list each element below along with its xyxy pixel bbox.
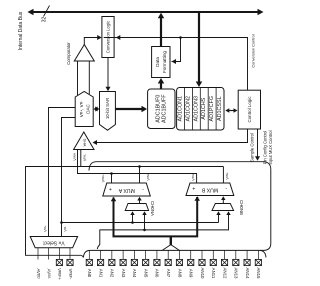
svg-text:VINH: VINH bbox=[101, 175, 106, 183]
svg-text:32: 32 bbox=[41, 17, 47, 23]
block: Conversion Logic bbox=[102, 17, 114, 58]
svg-text:10-bit SAR: 10-bit SAR bbox=[105, 98, 110, 119]
svg-text:AN12: AN12 bbox=[222, 268, 227, 280]
wire: CH0NA output to MUX A bbox=[137, 197, 141, 204]
svg-text:Control Logic: Control Logic bbox=[247, 96, 252, 123]
pin AN8 bbox=[176, 250, 182, 277]
wire/net: Conversion Control bbox=[104, 34, 256, 90]
wire: comparator output to conversion logic bbox=[84, 35, 101, 45]
svg-text:Input MUX Control: Input MUX Control bbox=[268, 130, 273, 164]
pin VREF- bbox=[67, 248, 73, 280]
svg-text:ADC1BUFF: ADC1BUFF bbox=[161, 94, 167, 123]
svg-text:-: - bbox=[142, 187, 144, 193]
svg-text:Data: Data bbox=[155, 57, 160, 67]
mux CH0NB bbox=[212, 200, 244, 215]
svg-text:SHA: SHA bbox=[83, 139, 88, 147]
svg-text:Comparator: Comparator bbox=[66, 42, 71, 65]
wire: DAC to SAR double arrow bbox=[94, 107, 100, 112]
wire/net: AN1 rail to CH0NA/CH0NB bbox=[97, 211, 230, 249]
power pin AVSS bbox=[46, 248, 51, 279]
pin AN0 bbox=[86, 250, 92, 277]
wire/net: VR- to DAC bbox=[62, 118, 76, 237]
pin AN5 bbox=[143, 250, 149, 277]
wire/net: VR- reference rail to CH0NA/CH0NB bbox=[60, 211, 221, 224]
svg-text:AD1CON2: AD1CON2 bbox=[185, 96, 191, 121]
pin AN3 bbox=[120, 250, 126, 277]
svg-text:CH0NB: CH0NB bbox=[239, 200, 244, 215]
wire: SAR result bus to ADC1BUF (thick arrow) bbox=[115, 106, 147, 113]
junction: MUX A - to VINL rail bbox=[138, 165, 150, 183]
svg-text:AD1PCFG: AD1PCFG bbox=[209, 96, 215, 121]
pin AN9 bbox=[188, 250, 194, 277]
svg-text:VREF+: VREF+ bbox=[57, 268, 62, 280]
wire/net: Pin Config Control / Input MUX Control bbox=[255, 129, 273, 165]
svg-text:VINL: VINL bbox=[82, 154, 87, 162]
pin AN6 bbox=[154, 250, 160, 277]
wire: analog input bus to MUX A / MUX B (thick) bbox=[111, 196, 200, 236]
wire: AN0-AN15 pin collector bus bbox=[83, 250, 266, 257]
svg-text:Formatting: Formatting bbox=[162, 51, 167, 73]
svg-text:AD1CON1: AD1CON1 bbox=[178, 96, 184, 121]
svg-text:AN13: AN13 bbox=[234, 268, 239, 280]
pin VREF+ bbox=[56, 248, 62, 281]
mux MUX A bbox=[103, 183, 151, 196]
pin AN7 bbox=[165, 250, 171, 277]
wire: ADC1BUF to Data Formatting (thick) bbox=[158, 78, 165, 89]
pin AN2 bbox=[109, 250, 115, 277]
register: 10-bit SAR bbox=[100, 92, 116, 131]
svg-text:AN2: AN2 bbox=[110, 269, 115, 278]
svg-text:VINH: VINH bbox=[72, 153, 77, 161]
svg-text:AN11: AN11 bbox=[211, 268, 216, 279]
svg-text:AD1CSSL: AD1CSSL bbox=[217, 96, 223, 121]
svg-text:VR+, VR-: VR+, VR- bbox=[79, 101, 84, 118]
svg-text:AN7: AN7 bbox=[166, 269, 171, 278]
mux CH0NA (negative input select A) bbox=[125, 201, 155, 216]
svg-text:VREF-: VREF- bbox=[68, 269, 73, 280]
wire/net: VINL rail (SHA - input) bbox=[26, 150, 224, 258]
svg-text:AN8: AN8 bbox=[177, 269, 182, 278]
svg-text:AN9: AN9 bbox=[189, 269, 194, 278]
mux: VR Select bbox=[30, 237, 77, 248]
wire: Internal Data Bus (32-bit) bbox=[28, 9, 264, 16]
wire/net: VINH rail (SHA + input) bbox=[72, 150, 196, 184]
wire: comparator input legs from DAC / SAR chain bbox=[78, 61, 90, 95]
svg-text:Conversion Logic: Conversion Logic bbox=[106, 21, 111, 53]
DAC (VR+, VR- reference DAC) bbox=[75, 92, 93, 127]
svg-text:+: + bbox=[192, 187, 195, 193]
svg-text:AN1: AN1 bbox=[98, 269, 103, 278]
pin AN14 bbox=[244, 250, 250, 279]
op-amp comparator bbox=[66, 42, 95, 65]
register file: ADC1BUF0..ADC1BUFF bbox=[148, 89, 175, 129]
svg-text:AN14: AN14 bbox=[245, 268, 250, 280]
register group: AD1CON1..AD1CSSL bbox=[177, 88, 224, 131]
svg-text:AVSS: AVSS bbox=[46, 269, 51, 279]
power pin AVDD bbox=[36, 248, 41, 279]
svg-text:+: + bbox=[109, 187, 112, 193]
register AD1CHS bbox=[201, 88, 208, 131]
pin AN15 bbox=[255, 250, 261, 279]
svg-text:MUX B: MUX B bbox=[201, 187, 218, 193]
svg-text:Pin Config Control: Pin Config Control bbox=[263, 131, 268, 165]
svg-text:VINL: VINL bbox=[145, 173, 150, 181]
svg-text:AN4: AN4 bbox=[132, 269, 137, 278]
svg-text:VINH: VINH bbox=[191, 173, 196, 181]
svg-text:AN15: AN15 bbox=[256, 268, 261, 280]
svg-text:VR-: VR- bbox=[63, 226, 68, 232]
junction: CH0NA from AN1 rail bbox=[142, 211, 146, 231]
svg-text:Internal Data Bus: Internal Data Bus bbox=[18, 11, 24, 50]
block: Control Logic bbox=[238, 90, 260, 129]
mux MUX B bbox=[186, 183, 234, 196]
svg-text:AVDD: AVDD bbox=[36, 268, 41, 279]
svg-text:AN10: AN10 bbox=[200, 268, 205, 280]
net label: Internal Data Bus bbox=[18, 11, 24, 50]
register AD1CON1 bbox=[178, 88, 185, 131]
amplifier: SHA (sample and hold) bbox=[74, 132, 94, 150]
pin AN10 bbox=[199, 250, 205, 279]
svg-text:AN0: AN0 bbox=[87, 269, 92, 278]
bus width slash, value 32 bbox=[41, 6, 49, 23]
wire: Data Formatting to internal bus (thick) bbox=[158, 13, 165, 47]
wire: register group to Control Logic double arrow bbox=[225, 108, 237, 113]
svg-text:AN5: AN5 bbox=[143, 269, 148, 278]
svg-text:AN6: AN6 bbox=[155, 269, 160, 278]
svg-text:VR Select: VR Select bbox=[43, 239, 65, 245]
register AD1CSSL bbox=[217, 96, 223, 121]
register AD1CON3 bbox=[193, 88, 200, 131]
svg-text:-: - bbox=[225, 186, 227, 192]
svg-text:VR+: VR+ bbox=[43, 225, 48, 232]
junction: CH0NA from VR- rail bbox=[130, 211, 134, 224]
svg-text:Conversion Control: Conversion Control bbox=[250, 34, 255, 67]
pin AN4 bbox=[131, 250, 137, 277]
pin AN1 bbox=[97, 250, 103, 277]
svg-text:VINL: VINL bbox=[225, 172, 230, 180]
wire: pin collector stem (thick) bbox=[162, 236, 179, 250]
junction: MUX A + to VINH rail bbox=[101, 172, 113, 183]
wire/net: VR+ to DAC bbox=[43, 108, 76, 237]
net labels at MUX B: VINH, VINL bbox=[191, 172, 230, 181]
wire/net: Sample Control bbox=[93, 129, 255, 162]
svg-text:CH0NA: CH0NA bbox=[150, 201, 155, 216]
wire: CH0NB output to MUX B bbox=[221, 196, 225, 203]
wire: internal bus to register group (thick) bbox=[196, 13, 203, 87]
pin AN13 bbox=[233, 250, 239, 279]
register AD1CON2 bbox=[185, 88, 192, 131]
svg-text:DAC: DAC bbox=[85, 104, 90, 114]
svg-text:Sample Control: Sample Control bbox=[249, 133, 254, 162]
enclosure: analog input scan / pin block boundary bbox=[89, 162, 271, 251]
svg-text:MUX A: MUX A bbox=[118, 187, 135, 193]
junction: conversion control to data formatting bbox=[172, 36, 182, 64]
pin AN11 bbox=[210, 250, 216, 278]
svg-text:AD1CON3: AD1CON3 bbox=[193, 96, 199, 121]
register AD1PCFG bbox=[209, 88, 216, 131]
svg-text:AD1CHS: AD1CHS bbox=[201, 97, 207, 119]
pin AN12 bbox=[221, 250, 227, 279]
svg-text:AN3: AN3 bbox=[121, 269, 126, 278]
wire: conversion logic to 10-bit SAR bbox=[106, 58, 111, 92]
block: Data Formatting bbox=[152, 47, 170, 78]
